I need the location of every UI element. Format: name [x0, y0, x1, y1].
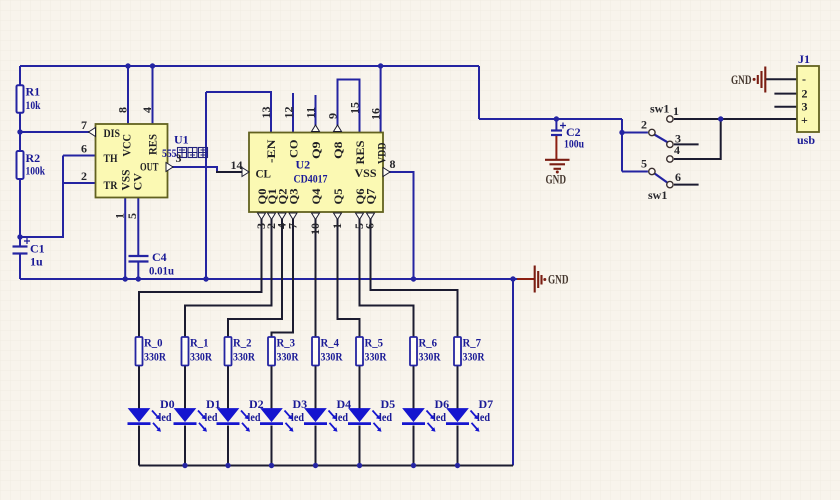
wire Q3 pin7 to R_3 [272, 219, 294, 337]
wire J1 minus lead [766, 78, 797, 80]
wire -EN top link [206, 92, 271, 133]
svg-text:sw1: sw1 [648, 188, 667, 202]
node LED rail D3 [269, 463, 274, 468]
svg-text:2: 2 [81, 169, 87, 183]
wire junction to J1 plus [721, 118, 797, 120]
capacitor C1 [13, 238, 45, 269]
svg-text:3: 3 [176, 151, 182, 165]
wire Q7 pin6 to R_7 [371, 219, 458, 337]
ground for J1 [731, 67, 765, 93]
wire D7 cathode [457, 426, 459, 466]
svg-text:10: 10 [308, 223, 322, 235]
svg-text:J1: J1 [798, 52, 810, 66]
svg-text:C1: C1 [30, 242, 45, 256]
svg-text:330R: 330R [277, 350, 299, 364]
svg-text:5: 5 [641, 157, 647, 171]
wire D5 cathode [359, 426, 361, 466]
svg-text:-: - [802, 72, 806, 86]
555 pin numbers [81, 107, 243, 219]
svg-text:R_2: R_2 [233, 336, 252, 350]
svg-text:13: 13 [259, 107, 273, 119]
svg-text:2: 2 [641, 118, 647, 132]
capacitor C4 [129, 250, 175, 278]
svg-text:U1: U1 [174, 133, 189, 147]
svg-text:D0: D0 [160, 397, 175, 411]
svg-text:GND: GND [546, 173, 567, 187]
wire to sw1 pin2 [622, 132, 648, 134]
node VCC rail / pin4 [150, 63, 155, 68]
svg-text:Q4: Q4 [309, 189, 323, 205]
svg-text:sw1: sw1 [650, 102, 669, 116]
svg-text:7: 7 [286, 223, 300, 229]
svg-text:OUT: OUT [140, 160, 159, 174]
wire DIS pin7 [20, 131, 93, 133]
wire D0 cathode [138, 426, 140, 466]
svg-text:8: 8 [116, 107, 130, 113]
svg-text:RES: RES [353, 140, 367, 164]
wire R_3 to D3 [271, 366, 273, 410]
wire top power rail [20, 65, 479, 67]
wire Q0 pin3 to R_0 [139, 219, 262, 337]
wire ground rail [20, 278, 517, 280]
wire J1 pin2 lead [774, 93, 797, 95]
svg-text:R_0: R_0 [144, 336, 163, 350]
sw1 blade 2-3 [654, 135, 667, 143]
svg-text:CD4017: CD4017 [294, 172, 328, 186]
svg-text:led: led [205, 410, 218, 424]
node sw1 pin2 branch [619, 130, 624, 135]
wire VCC pin8 drop [127, 66, 129, 124]
resistor R_3 330R [268, 336, 299, 366]
svg-text:3: 3 [802, 100, 808, 114]
wire D3 cathode [271, 426, 273, 466]
wire TH pin6 [63, 155, 96, 157]
wire J1 pin3 lead [774, 106, 797, 108]
svg-text:R_6: R_6 [419, 336, 438, 350]
svg-text:330R: 330R [365, 350, 387, 364]
wire R_2 to D2 [227, 366, 229, 410]
svg-text:6: 6 [675, 170, 681, 184]
svg-text:VDD: VDD [375, 142, 389, 164]
resistor R_5 330R [356, 336, 387, 366]
node R2 / C1 / TR-TH [17, 234, 22, 239]
resistor R_1 330R [182, 336, 213, 366]
wire Q4 pin10 to R_4 [315, 219, 317, 337]
node LED rail D5 [357, 463, 362, 468]
sw1 pin5 contact [649, 168, 655, 174]
svg-text:Q8: Q8 [331, 142, 345, 160]
wire Q9 pin11 stub [315, 95, 317, 127]
sw1 blade 5-6 [655, 174, 668, 183]
node R1 / DIS [17, 129, 22, 134]
resistor R_6 330R [410, 336, 441, 366]
wire R_6 to D6 [413, 366, 415, 410]
node ground / LED rail riser [510, 276, 515, 281]
svg-text:6: 6 [81, 142, 87, 156]
svg-text:R_4: R_4 [321, 336, 340, 350]
wire TR pin2 [63, 182, 96, 184]
svg-text:4: 4 [140, 107, 154, 113]
node LED rail D7 [455, 463, 460, 468]
wire OUT pin3 to step [165, 167, 218, 172]
svg-text:D7: D7 [479, 397, 494, 411]
svg-text:R1: R1 [26, 85, 41, 99]
svg-text:2: 2 [802, 87, 808, 101]
svg-text:330R: 330R [321, 350, 343, 364]
resistor R_7 330R [454, 336, 485, 366]
node ground / -EN [203, 276, 208, 281]
sw1 pin2 contact [649, 129, 655, 135]
IC U2 CD4017 body [249, 133, 389, 213]
node VCC rail / pin16 [378, 63, 383, 68]
resistor R_2 330R [225, 336, 256, 366]
ground right of ground rail [517, 266, 569, 293]
node ground / C4 [136, 276, 141, 281]
svg-text:330R: 330R [144, 350, 166, 364]
svg-text:R_5: R_5 [365, 336, 384, 350]
wire D1 cathode [184, 426, 186, 466]
wire switch common drop [621, 119, 623, 172]
svg-text:1: 1 [673, 104, 679, 118]
555 chinese text blocks [178, 148, 208, 158]
LED D5 [348, 397, 395, 432]
wire left rail C1-ground [19, 254, 21, 280]
wire Q1 pin2 to R_1 [185, 219, 272, 337]
node C2 top [554, 116, 559, 121]
svg-text:U2: U2 [296, 158, 311, 172]
svg-text:7: 7 [81, 118, 87, 132]
U2 reference label [294, 158, 328, 186]
U1 reference label [162, 133, 208, 161]
wire sw1 pin3 stub [674, 143, 699, 145]
wire VSS pin8 to ground rail [388, 172, 414, 279]
wire 555 pin5 CV to C4 [137, 198, 139, 256]
svg-text:D5: D5 [381, 397, 396, 411]
wire CO pin12 stub [292, 93, 294, 133]
wire R_1 to D1 [184, 366, 186, 410]
svg-text:led: led [379, 410, 392, 424]
wire sw1 pin1 to junction [674, 118, 721, 120]
svg-text:led: led [335, 410, 348, 424]
wire D4 cathode [315, 426, 317, 466]
node LED rail D4 [313, 463, 318, 468]
wire R_4 to D4 [315, 366, 317, 410]
wire Q5 pin1 to R_5 [338, 219, 360, 337]
svg-text:15: 15 [348, 102, 362, 114]
svg-text:100k: 100k [26, 164, 46, 178]
wire -EN pin13 to ground [205, 92, 207, 279]
node ground / 555 pin1 [123, 276, 128, 281]
svg-text:1: 1 [330, 223, 344, 229]
sw1 pin6 contact [667, 181, 673, 187]
svg-text:5: 5 [125, 213, 139, 219]
LED D2 [217, 397, 264, 432]
svg-text:VSS: VSS [355, 166, 377, 180]
LED D7 [446, 397, 493, 432]
svg-text:-EN: -EN [264, 139, 278, 163]
svg-text:R_1: R_1 [190, 336, 209, 350]
svg-text:100u: 100u [564, 137, 584, 151]
svg-text:Q9: Q9 [309, 142, 323, 160]
sw1 pin1 contact [667, 116, 673, 122]
wire left rail top [19, 66, 21, 87]
CD4017 pin numbers [254, 102, 396, 235]
resistor R1 [17, 85, 41, 113]
wire RES pin4 drop [152, 66, 154, 124]
wire to sw1 pin5 [622, 171, 648, 173]
wire ground rail riser from LED rail [512, 279, 514, 466]
svg-text:led: led [477, 410, 490, 424]
node LED rail D1 [182, 463, 187, 468]
connector J1 usb [797, 52, 819, 147]
svg-text:C4: C4 [152, 250, 167, 264]
LED D3 [260, 397, 307, 432]
resistor R_4 330R [312, 336, 343, 366]
node VCC rail / pin8 [125, 63, 130, 68]
svg-text:R_3: R_3 [277, 336, 296, 350]
LED D4 [304, 397, 351, 432]
wire sw1 pin6 stub [674, 184, 699, 186]
svg-text:led: led [291, 410, 304, 424]
sw1 pin4 contact [667, 156, 673, 162]
ground for C2 [545, 160, 570, 187]
wire C4 to ground rail [137, 262, 139, 279]
svg-text:14: 14 [231, 158, 243, 172]
svg-text:DIS: DIS [104, 126, 121, 140]
svg-text:330R: 330R [463, 350, 485, 364]
svg-text:GND: GND [548, 273, 569, 287]
op-amp U1 555 timer body [89, 124, 174, 198]
svg-text:Q5: Q5 [331, 189, 345, 205]
wire right power drop [478, 66, 480, 119]
svg-text:8: 8 [390, 157, 396, 171]
capacitor C2 [551, 119, 584, 159]
svg-text:led: led [248, 410, 261, 424]
wire Q2 pin4 to R_2 [228, 219, 282, 337]
wire power feed to switch [479, 118, 622, 120]
node LED rail D2 [225, 463, 230, 468]
svg-text:Q3: Q3 [287, 189, 301, 205]
wire Q8 pin9 to RES pin15 loop [338, 80, 360, 133]
wire left rail R1-R2 [19, 112, 21, 152]
svg-text:CV: CV [131, 173, 145, 191]
svg-text:4: 4 [674, 143, 680, 157]
svg-text:+: + [801, 113, 808, 127]
svg-text:1u: 1u [30, 255, 43, 269]
LED D0 [128, 397, 175, 432]
wire Q6 pin5 to R_6 [360, 219, 414, 337]
LED D1 [174, 397, 221, 432]
svg-text:6: 6 [363, 223, 377, 229]
svg-text:TR: TR [104, 178, 118, 192]
svg-text:usb: usb [797, 133, 815, 147]
wire sw1 pin4 link [674, 119, 721, 159]
wire R_0 to D0 [138, 366, 140, 410]
svg-text:12: 12 [282, 107, 296, 119]
resistor R_0 330R [136, 336, 167, 366]
svg-text:GND: GND [731, 73, 752, 87]
CD4017 pin arrows [242, 125, 390, 220]
wire D6 cathode [413, 426, 415, 466]
LED D6 [402, 397, 449, 432]
node LED rail D6 [411, 463, 416, 468]
wire step to CL pin14 [216, 171, 249, 173]
switch sw1 [641, 102, 681, 203]
wire TH-TR vertical to C1 node [20, 156, 63, 238]
node ground / VSS8 [411, 276, 416, 281]
svg-text:330R: 330R [233, 350, 255, 364]
svg-text:R_7: R_7 [463, 336, 482, 350]
svg-text:555: 555 [162, 146, 177, 160]
svg-text:10k: 10k [26, 98, 41, 112]
svg-text:330R: 330R [419, 350, 441, 364]
svg-text:led: led [433, 410, 446, 424]
wire left rail R2-C1 [19, 179, 21, 247]
svg-text:16: 16 [369, 108, 383, 120]
svg-text:11: 11 [304, 107, 318, 118]
wire VDD pin16 drop [380, 66, 382, 133]
wire LED cathode bottom rail [139, 465, 513, 467]
svg-text:330R: 330R [190, 350, 212, 364]
svg-text:Q7: Q7 [364, 189, 378, 205]
svg-text:RES: RES [146, 134, 160, 155]
node sw1 pin1 / pin4 / J1 [718, 116, 723, 121]
resistor R2 [17, 151, 46, 179]
svg-text:led: led [159, 410, 172, 424]
svg-text:CL: CL [256, 167, 272, 181]
wire 555 pin1 VSS drop [124, 198, 126, 280]
wire D2 cathode [227, 426, 229, 466]
svg-text:VCC: VCC [120, 134, 134, 157]
wire R_7 to D7 [457, 366, 459, 410]
svg-text:9: 9 [326, 113, 340, 119]
svg-text:CO: CO [287, 140, 301, 159]
wire R_5 to D5 [359, 366, 361, 410]
svg-text:TH: TH [104, 151, 119, 165]
svg-text:0.01u: 0.01u [149, 264, 174, 278]
sw1 pin3 contact [667, 141, 673, 147]
